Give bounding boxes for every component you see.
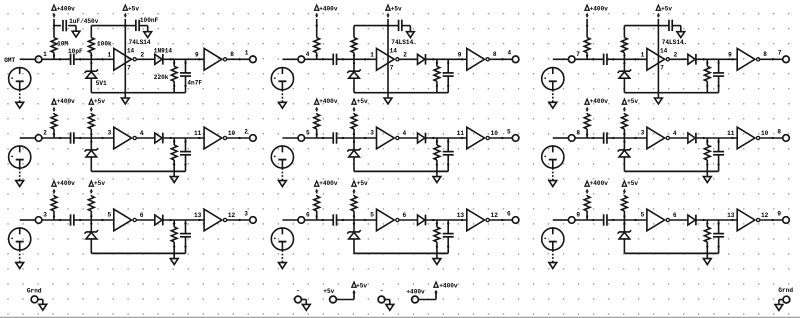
svg-text:12: 12 (491, 212, 499, 219)
svg-text:4: 4 (140, 130, 144, 137)
svg-text:8: 8 (777, 128, 781, 135)
svg-text:11: 11 (727, 130, 735, 137)
svg-text:2: 2 (43, 130, 47, 137)
svg-text:1: 1 (370, 52, 374, 59)
svg-text:10: 10 (228, 130, 236, 137)
svg-text:+5v: +5v (323, 288, 334, 295)
svg-text:12: 12 (761, 212, 769, 219)
svg-text:13: 13 (727, 212, 735, 219)
svg-text:4: 4 (673, 130, 677, 137)
svg-text:13: 13 (457, 212, 465, 219)
svg-text:5: 5 (641, 212, 645, 219)
svg-text:14: 14 (390, 48, 398, 55)
svg-text:+400v: +400v (590, 180, 609, 187)
svg-text:+400v: +400v (319, 98, 338, 105)
svg-text:4: 4 (508, 50, 512, 57)
svg-text:100k: 100k (97, 40, 112, 47)
svg-text:5: 5 (370, 212, 374, 219)
svg-text:9: 9 (458, 51, 462, 58)
svg-text:7: 7 (660, 65, 664, 72)
svg-text:5: 5 (108, 212, 112, 219)
svg-text:5: 5 (306, 130, 310, 137)
svg-text:6: 6 (306, 212, 310, 219)
svg-text:220k: 220k (154, 74, 169, 81)
svg-text:+5v: +5v (661, 5, 672, 12)
svg-text:+400v: +400v (590, 6, 609, 13)
svg-text:3: 3 (370, 130, 374, 137)
svg-text:11: 11 (457, 130, 465, 137)
svg-text:Grnd: Grnd (27, 287, 42, 294)
svg-text:+5v: +5v (357, 98, 368, 105)
svg-text:1: 1 (108, 52, 112, 59)
svg-text:4n7F: 4n7F (187, 79, 202, 86)
svg-text:1N914: 1N914 (154, 48, 173, 55)
svg-text:2: 2 (403, 52, 407, 59)
svg-text:4: 4 (306, 51, 310, 58)
svg-text:GMT: GMT (4, 57, 15, 64)
svg-text:9: 9 (777, 210, 781, 217)
svg-text:+5v: +5v (357, 180, 368, 187)
svg-text:+400v: +400v (406, 289, 425, 296)
svg-text:3: 3 (108, 130, 112, 137)
svg-text:4: 4 (403, 130, 407, 137)
svg-text:5: 5 (507, 128, 511, 135)
svg-text:+5v: +5v (356, 283, 367, 290)
svg-text:10: 10 (761, 130, 769, 137)
svg-text:3: 3 (641, 130, 645, 137)
svg-text:9: 9 (195, 51, 199, 58)
svg-text:7: 7 (127, 65, 131, 72)
svg-text:2: 2 (244, 128, 248, 135)
svg-text:74LS14.: 74LS14. (662, 39, 688, 46)
svg-text:12: 12 (228, 212, 236, 219)
svg-text:-: - (380, 288, 384, 295)
svg-text:+400v: +400v (590, 98, 609, 105)
svg-text:74LS14.: 74LS14. (391, 39, 417, 46)
svg-text:13: 13 (194, 212, 202, 219)
svg-text:11: 11 (194, 130, 202, 137)
svg-text:8: 8 (493, 51, 497, 58)
svg-text:2: 2 (674, 52, 678, 59)
svg-text:9: 9 (576, 212, 580, 219)
svg-text:6: 6 (140, 212, 144, 219)
svg-text:74LS14: 74LS14 (129, 39, 151, 46)
svg-text:14: 14 (127, 48, 135, 55)
svg-text:+5v: +5v (391, 5, 402, 12)
svg-text:-: - (296, 288, 300, 295)
svg-text:+400v: +400v (439, 283, 458, 290)
svg-text:3: 3 (43, 212, 47, 219)
svg-text:+400v: +400v (319, 6, 338, 13)
svg-text:6: 6 (673, 212, 677, 219)
svg-text:+5v: +5v (627, 98, 638, 105)
svg-text:2: 2 (141, 52, 145, 59)
svg-text:+400v: +400v (57, 6, 76, 13)
svg-text:10pF: 10pF (68, 48, 83, 55)
svg-text:8: 8 (576, 130, 580, 137)
svg-text:7: 7 (390, 65, 394, 72)
svg-text:+400v: +400v (319, 180, 338, 187)
svg-text:+5v: +5v (94, 98, 105, 105)
svg-text:9: 9 (728, 51, 732, 58)
svg-text:6: 6 (507, 210, 511, 217)
svg-text:5V1: 5V1 (96, 80, 107, 87)
svg-text:8: 8 (763, 51, 767, 58)
svg-text:+400v: +400v (57, 98, 76, 105)
svg-text:1: 1 (43, 51, 47, 58)
svg-text:10M: 10M (57, 41, 68, 48)
svg-text:+5v: +5v (128, 5, 139, 12)
svg-text:1: 1 (245, 50, 249, 57)
svg-text:14: 14 (660, 48, 668, 55)
svg-text:100nF: 100nF (140, 17, 159, 24)
svg-text:10: 10 (491, 130, 499, 137)
svg-text:Grnd: Grnd (778, 287, 793, 294)
svg-text:+5v: +5v (627, 180, 638, 187)
svg-text:7: 7 (778, 50, 782, 57)
svg-text:+400v: +400v (57, 180, 76, 187)
svg-text:3: 3 (244, 210, 248, 217)
svg-text:8: 8 (230, 51, 234, 58)
svg-text:7: 7 (576, 51, 580, 58)
svg-text:1uF/450v: 1uF/450v (69, 18, 99, 25)
svg-text:+5v: +5v (94, 180, 105, 187)
svg-text:1: 1 (641, 52, 645, 59)
svg-text:6: 6 (403, 212, 407, 219)
